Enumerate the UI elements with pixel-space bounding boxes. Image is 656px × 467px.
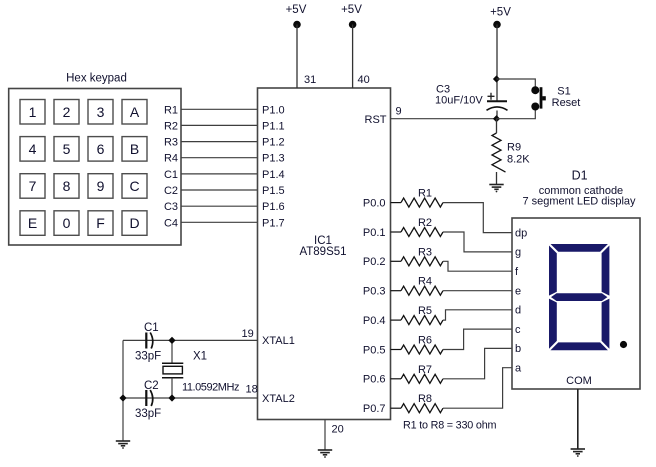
wire R5 to display pin bbox=[443, 310, 512, 320]
svg-text:e: e bbox=[515, 285, 521, 297]
svg-text:2: 2 bbox=[63, 104, 71, 120]
wire keypad C1 to P1.4 bbox=[164, 169, 258, 181]
svg-text:g: g bbox=[515, 247, 521, 259]
wire R6 to display pin bbox=[443, 329, 512, 349]
keypad key 7 bbox=[20, 174, 45, 199]
svg-text:RST: RST bbox=[365, 114, 387, 126]
svg-text:P1.7: P1.7 bbox=[262, 217, 285, 229]
svg-text:0: 0 bbox=[63, 215, 71, 231]
svg-text:20: 20 bbox=[332, 424, 344, 436]
svg-text:B: B bbox=[130, 141, 139, 157]
svg-text:P1.6: P1.6 bbox=[262, 201, 285, 213]
svg-text:R7: R7 bbox=[418, 364, 432, 376]
keypad key A bbox=[122, 100, 147, 125]
svg-text:R9: R9 bbox=[507, 142, 521, 154]
wire XTAL2 line bbox=[123, 397, 258, 399]
svg-text:E: E bbox=[28, 215, 37, 231]
svg-text:XTAL1: XTAL1 bbox=[262, 335, 295, 347]
wire switch bottom to reset node bbox=[497, 110, 536, 119]
svg-text:18: 18 bbox=[246, 384, 258, 396]
svg-text:P0.7: P0.7 bbox=[363, 403, 386, 415]
VCC supply 3 (reset) +5V bbox=[490, 7, 511, 29]
svg-text:11.0592MHz: 11.0592MHz bbox=[182, 382, 240, 394]
wire +5V to reset node bbox=[496, 25, 498, 102]
svg-text:C3: C3 bbox=[164, 201, 178, 213]
ground below R9 bbox=[489, 185, 503, 193]
svg-text:P1.2: P1.2 bbox=[262, 137, 285, 149]
keypad key 3 bbox=[88, 100, 113, 125]
svg-text:6: 6 bbox=[97, 141, 105, 157]
wire R2 to display pin bbox=[443, 232, 512, 252]
keypad key B bbox=[122, 137, 147, 162]
display segment C bbox=[602, 299, 610, 349]
svg-text:R1 to R8 = 330 ohm: R1 to R8 = 330 ohm bbox=[403, 420, 497, 432]
wire R4 to display pin bbox=[443, 290, 512, 292]
junction C2 ground rail bbox=[119, 394, 126, 401]
display segment E bbox=[549, 299, 557, 349]
wire R8 to display pin bbox=[443, 368, 512, 409]
svg-text:+5V: +5V bbox=[490, 7, 511, 19]
wire keypad C2 to P1.5 bbox=[164, 185, 258, 197]
resistor R8 bbox=[391, 393, 443, 413]
svg-text:P0.1: P0.1 bbox=[363, 227, 386, 239]
svg-text:8.2K: 8.2K bbox=[507, 154, 530, 166]
keypad key E bbox=[20, 211, 45, 236]
svg-text:C: C bbox=[129, 178, 139, 194]
capacitor C1 bbox=[135, 322, 161, 363]
svg-text:Reset: Reset bbox=[552, 97, 581, 109]
display segment B bbox=[602, 246, 610, 296]
wire +5V to pin40 bbox=[352, 25, 354, 89]
keypad key F bbox=[88, 211, 113, 236]
svg-text:R3: R3 bbox=[164, 137, 178, 149]
svg-text:D1: D1 bbox=[572, 169, 588, 183]
ground below crystal caps bbox=[116, 441, 130, 449]
wire keypad R1 to P1.0 bbox=[164, 104, 258, 116]
svg-text:Hex keypad: Hex keypad bbox=[66, 73, 127, 85]
wire keypad C3 to P1.6 bbox=[164, 201, 258, 213]
svg-text:R3: R3 bbox=[418, 246, 432, 258]
wire R7 to display pin bbox=[443, 348, 512, 378]
svg-text:R8: R8 bbox=[418, 393, 432, 405]
svg-text:P0.2: P0.2 bbox=[363, 256, 386, 268]
display segment G bbox=[551, 293, 607, 301]
resistor R5 bbox=[391, 305, 443, 325]
wire R3 to display pin bbox=[443, 261, 512, 271]
junction XTAL1 node bbox=[168, 337, 175, 344]
svg-text:COM: COM bbox=[566, 375, 592, 387]
svg-text:P1.4: P1.4 bbox=[262, 169, 285, 181]
resistor R1 bbox=[391, 188, 443, 208]
wire pin 20 to ground bbox=[324, 420, 326, 451]
wire keypad C4 to P1.7 bbox=[164, 217, 258, 229]
capacitor C3 bbox=[435, 84, 508, 119]
svg-text:A: A bbox=[130, 104, 140, 120]
svg-text:F: F bbox=[96, 215, 105, 231]
svg-text:7 segment LED display: 7 segment LED display bbox=[522, 196, 636, 208]
display decimal point dp bbox=[620, 341, 627, 348]
svg-text:R1: R1 bbox=[418, 188, 432, 200]
svg-text:40: 40 bbox=[358, 74, 370, 86]
svg-text:P1.0: P1.0 bbox=[262, 104, 285, 116]
resistor R4 bbox=[391, 276, 443, 296]
svg-text:c: c bbox=[515, 324, 521, 336]
crystal X1 bbox=[162, 340, 240, 398]
svg-text:C4: C4 bbox=[164, 217, 178, 229]
wire RST pin to reset node bbox=[391, 118, 497, 120]
svg-text:XTAL2: XTAL2 bbox=[262, 393, 295, 405]
svg-text:P1.1: P1.1 bbox=[262, 120, 285, 132]
display segment F bbox=[549, 246, 557, 296]
svg-text:C1: C1 bbox=[164, 169, 178, 181]
pushbutton switch S1 bbox=[531, 86, 546, 110]
resistor R7 bbox=[391, 364, 443, 384]
VCC supply 2 (pin 40) +5V bbox=[341, 4, 362, 28]
wire keypad R4 to P1.3 bbox=[164, 153, 258, 165]
svg-text:AT89S51: AT89S51 bbox=[299, 246, 346, 258]
keypad key 2 bbox=[54, 100, 79, 125]
resistor R6 bbox=[391, 335, 443, 355]
svg-text:+5V: +5V bbox=[341, 4, 362, 16]
svg-text:33pF: 33pF bbox=[135, 408, 161, 420]
display D1 box bbox=[512, 218, 640, 389]
svg-text:3: 3 bbox=[97, 104, 105, 120]
wire keypad R2 to P1.1 bbox=[164, 120, 258, 132]
svg-text:b: b bbox=[515, 343, 521, 355]
svg-text:33pF: 33pF bbox=[135, 351, 161, 363]
svg-text:C2: C2 bbox=[144, 380, 159, 392]
keypad key C bbox=[122, 174, 147, 199]
svg-text:P0.3: P0.3 bbox=[363, 286, 386, 298]
resistor R3 bbox=[391, 246, 443, 265]
svg-text:7: 7 bbox=[29, 178, 37, 194]
junction XTAL2 node bbox=[168, 394, 175, 401]
keypad key 8 bbox=[54, 174, 79, 199]
svg-text:P0.5: P0.5 bbox=[363, 344, 386, 356]
svg-text:dp: dp bbox=[515, 227, 527, 239]
keypad key D bbox=[122, 211, 147, 236]
svg-text:P1.5: P1.5 bbox=[262, 185, 285, 197]
svg-text:31: 31 bbox=[304, 74, 316, 86]
svg-text:a: a bbox=[515, 363, 522, 375]
wire +5V to pin31 bbox=[296, 25, 298, 89]
keypad key 5 bbox=[54, 137, 79, 162]
svg-text:R2: R2 bbox=[164, 120, 178, 132]
svg-text:R5: R5 bbox=[418, 305, 432, 317]
keypad key 4 bbox=[20, 137, 45, 162]
keypad key 9 bbox=[88, 174, 113, 199]
wire keypad R3 to P1.2 bbox=[164, 137, 258, 149]
svg-text:X1: X1 bbox=[193, 351, 207, 363]
svg-text:9: 9 bbox=[396, 106, 402, 118]
junction reset node bottom bbox=[493, 115, 500, 122]
VCC supply 1 (pin 31) +5V bbox=[286, 4, 307, 28]
svg-text:R2: R2 bbox=[418, 217, 432, 229]
capacitor C2 bbox=[135, 380, 161, 420]
IC U1 AT89S51 box bbox=[258, 88, 391, 420]
svg-text:R1: R1 bbox=[164, 104, 178, 116]
svg-text:+5V: +5V bbox=[286, 4, 307, 16]
svg-text:9: 9 bbox=[97, 178, 105, 194]
wire reset node to switch top bbox=[497, 79, 536, 87]
svg-text:C1: C1 bbox=[144, 322, 159, 334]
svg-text:5: 5 bbox=[63, 141, 71, 157]
svg-text:R4: R4 bbox=[164, 153, 178, 165]
wire R1 to display pin bbox=[443, 203, 512, 233]
keypad key 6 bbox=[88, 137, 113, 162]
ground below IC pin 20 bbox=[318, 450, 332, 458]
svg-text:S1: S1 bbox=[557, 86, 570, 98]
display segment A bbox=[551, 244, 608, 252]
svg-text:R4: R4 bbox=[418, 276, 432, 288]
svg-text:d: d bbox=[515, 305, 521, 317]
wire XTAL1 line bbox=[123, 339, 258, 341]
svg-text:P0.0: P0.0 bbox=[363, 197, 386, 209]
svg-text:P0.6: P0.6 bbox=[363, 374, 386, 386]
keypad key 0 bbox=[54, 211, 79, 236]
wire ground rail left of C1 C2 bbox=[122, 340, 124, 441]
svg-text:4: 4 bbox=[29, 141, 37, 157]
svg-text:1: 1 bbox=[29, 104, 37, 120]
keypad key 1 bbox=[20, 100, 45, 125]
svg-text:10uF/10V: 10uF/10V bbox=[435, 95, 483, 107]
svg-text:19: 19 bbox=[242, 328, 254, 340]
svg-text:P0.4: P0.4 bbox=[363, 315, 386, 327]
svg-text:D: D bbox=[129, 215, 139, 231]
svg-text:R6: R6 bbox=[418, 335, 432, 347]
svg-text:8: 8 bbox=[63, 178, 71, 194]
hex keypad KP outer box bbox=[9, 89, 181, 246]
display segment D bbox=[551, 342, 608, 350]
svg-text:P1.3: P1.3 bbox=[262, 153, 285, 165]
ground below display COM bbox=[571, 449, 585, 457]
resistor R9 bbox=[492, 119, 530, 185]
junction reset node top bbox=[493, 75, 500, 82]
svg-text:C2: C2 bbox=[164, 185, 178, 197]
resistor R2 bbox=[391, 217, 443, 237]
wire COM to ground bbox=[577, 389, 579, 449]
